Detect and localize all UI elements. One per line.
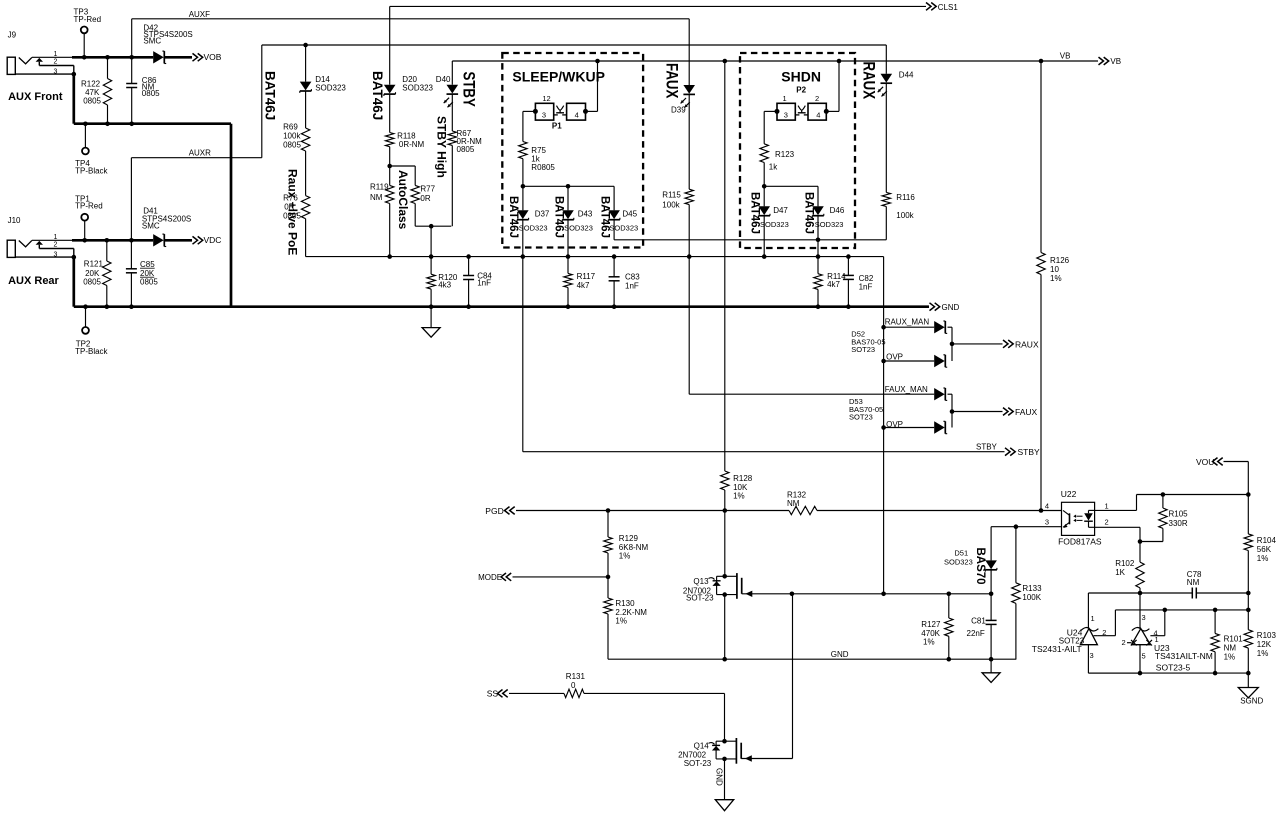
svg-text:BAT46J: BAT46J <box>370 71 385 120</box>
svg-text:TS431AILT-NM: TS431AILT-NM <box>1155 651 1213 661</box>
label D52 <box>851 330 885 355</box>
label BAT46J D43 <box>553 196 565 238</box>
resistor R129 <box>604 508 649 577</box>
svg-text:SOT23: SOT23 <box>851 345 875 354</box>
svg-text:J9: J9 <box>8 31 17 40</box>
svg-text:STBY: STBY <box>976 443 998 452</box>
testpoint TP3 <box>74 8 102 60</box>
label BAT46J D45 <box>599 196 611 238</box>
diode D53 upper <box>934 388 947 400</box>
wire OVP upper <box>881 359 934 364</box>
svg-text:R104: R104 <box>1257 536 1277 545</box>
label STBY <box>459 72 478 107</box>
svg-text:D40: D40 <box>436 75 451 84</box>
svg-text:R77: R77 <box>420 185 435 194</box>
wire J10 sleeve drop <box>72 257 75 307</box>
wire D42 to VOB <box>165 56 193 59</box>
diode D46 <box>812 186 845 229</box>
connector J9 audio jack <box>7 31 74 75</box>
svg-text:P1: P1 <box>552 122 562 131</box>
diode D41 <box>142 207 191 247</box>
svg-text:SOT23: SOT23 <box>849 412 873 421</box>
svg-text:R133: R133 <box>1022 584 1042 593</box>
J9 pin 3 <box>54 68 77 76</box>
svg-text:1nF: 1nF <box>477 279 491 288</box>
svg-text:2: 2 <box>1105 518 1109 527</box>
svg-text:BAS70: BAS70 <box>974 548 986 585</box>
svg-text:4: 4 <box>575 111 579 120</box>
svg-text:R103: R103 <box>1257 631 1277 640</box>
wire P2 pin3 to R123 <box>764 111 777 143</box>
svg-text:5: 5 <box>1142 652 1146 661</box>
label BAS70 D51 <box>974 548 986 585</box>
svg-text:TP-Black: TP-Black <box>75 166 108 175</box>
resistor R119 <box>370 166 394 259</box>
svg-text:0805: 0805 <box>283 212 301 221</box>
resistor R77 <box>390 166 452 229</box>
svg-text:330R: 330R <box>1169 519 1188 528</box>
svg-text:R127: R127 <box>921 620 941 629</box>
diode D20 <box>384 75 434 96</box>
J9 pin 2 <box>54 59 58 66</box>
svg-text:R116: R116 <box>896 193 915 202</box>
svg-text:SOD323: SOD323 <box>815 220 844 229</box>
capacitor C81 <box>967 594 997 662</box>
J10 pin 2 <box>54 242 58 249</box>
svg-text:20K: 20K <box>85 269 100 278</box>
svg-text:FAUX: FAUX <box>1015 407 1038 417</box>
wire J10 pin1 rail <box>72 239 153 242</box>
svg-text:BAT46J: BAT46J <box>553 196 565 238</box>
svg-text:470K: 470K <box>921 629 940 638</box>
svg-text:100k: 100k <box>662 200 680 209</box>
svg-text:22nF: 22nF <box>967 629 985 638</box>
svg-text:GND: GND <box>942 303 960 312</box>
svg-text:R126: R126 <box>1050 256 1070 265</box>
wire U22 pin3 line <box>991 526 1061 528</box>
wire sleep anode bus <box>523 184 614 189</box>
wire RAUX_MAN <box>881 325 934 330</box>
label AutoClass <box>396 170 410 230</box>
svg-text:VB: VB <box>1110 57 1121 66</box>
svg-text:Q13: Q13 <box>693 577 709 586</box>
svg-text:2.2K-NM: 2.2K-NM <box>615 608 647 617</box>
svg-text:2: 2 <box>54 59 58 66</box>
wire FAUX_MAN <box>689 257 934 395</box>
resistor R133 <box>1012 524 1042 659</box>
svg-text:1%: 1% <box>1257 649 1269 658</box>
svg-text:BAT46J: BAT46J <box>749 192 761 234</box>
svg-text:20K: 20K <box>140 269 155 278</box>
wire D37 cathode to STBY <box>521 220 526 452</box>
svg-text:12: 12 <box>542 94 550 103</box>
resistor R120 <box>427 226 458 309</box>
net label AUXF <box>189 10 210 19</box>
svg-text:FAUX_MAN: FAUX_MAN <box>885 385 928 394</box>
resistor R67 <box>448 94 482 227</box>
svg-text:D37: D37 <box>535 210 550 219</box>
svg-text:R123: R123 <box>775 150 795 159</box>
svg-text:4k7: 4k7 <box>577 281 590 290</box>
svg-text:SOD323: SOD323 <box>609 223 638 232</box>
wire OVP vertical <box>883 257 885 594</box>
svg-text:12K: 12K <box>1257 640 1272 649</box>
svg-text:VB: VB <box>1060 52 1071 61</box>
wire GND rail <box>74 305 929 308</box>
resistor R75 <box>519 142 556 189</box>
resistor R126 <box>1037 61 1070 511</box>
svg-text:C85: C85 <box>140 260 155 269</box>
port VOUT <box>1196 457 1223 467</box>
diode D45 <box>608 186 638 232</box>
svg-text:3: 3 <box>1142 613 1146 622</box>
label Raux +live PoE <box>286 169 300 255</box>
svg-text:BAT46J: BAT46J <box>803 192 815 234</box>
resistor R103 <box>1244 610 1276 675</box>
svg-text:AUXF: AUXF <box>189 10 210 19</box>
resistor R118 <box>386 94 425 169</box>
svg-text:0R: 0R <box>284 203 294 212</box>
wire MODE <box>513 575 611 580</box>
capacitor C82 <box>843 254 874 309</box>
svg-text:1K: 1K <box>1115 568 1125 577</box>
svg-text:C83: C83 <box>625 273 640 282</box>
diode D14 <box>300 43 347 93</box>
svg-text:R129: R129 <box>619 534 639 543</box>
wire AUXR <box>131 45 261 240</box>
diode D53 lower <box>934 421 947 433</box>
wire AUX front bottom rail <box>74 122 231 125</box>
svg-text:R115: R115 <box>662 191 681 200</box>
svg-text:CLS1: CLS1 <box>938 3 959 12</box>
diode D44 LED <box>878 45 914 96</box>
svg-text:SOD323: SOD323 <box>402 84 433 93</box>
port VB <box>1099 57 1122 66</box>
svg-text:R0805: R0805 <box>531 163 555 172</box>
svg-text:SGND: SGND <box>1240 697 1263 706</box>
label BAT46J D37 <box>507 196 519 238</box>
wire VOUT <box>1224 462 1251 497</box>
svg-text:3: 3 <box>784 111 788 120</box>
svg-text:AutoClass: AutoClass <box>396 170 410 230</box>
svg-text:1: 1 <box>1105 502 1109 511</box>
wire J9 sleeve drop <box>72 74 75 124</box>
svg-text:100K: 100K <box>1022 593 1041 602</box>
dashed box SLEEP/WKUP <box>502 53 643 248</box>
resistor R123 <box>760 144 795 189</box>
wire CLS1 <box>390 6 926 84</box>
wire cathode bus y256 <box>306 256 884 258</box>
net label OVP upper <box>886 352 903 361</box>
svg-text:TP-Black: TP-Black <box>75 347 108 356</box>
port GND <box>930 303 960 312</box>
resistor R101 <box>1211 608 1243 676</box>
connector J10 audio jack <box>7 216 74 257</box>
label D53 <box>849 397 883 422</box>
svg-text:D51: D51 <box>954 548 968 557</box>
label AUX Rear <box>8 275 59 287</box>
svg-text:SOD323: SOD323 <box>944 558 973 567</box>
wire feedback node <box>1097 593 1250 636</box>
svg-text:R101: R101 <box>1224 635 1244 644</box>
svg-text:FOD817AS: FOD817AS <box>1058 537 1102 547</box>
net label FAUX_MAN <box>885 385 928 394</box>
resistor R132 <box>787 491 817 515</box>
net label VB <box>1060 52 1071 61</box>
diode D37 <box>517 186 550 232</box>
port RAUX <box>1003 339 1039 349</box>
svg-text:MODE: MODE <box>478 573 502 582</box>
resistor R104 <box>1244 495 1276 596</box>
resistor R117 <box>564 220 596 309</box>
resistor R131 <box>509 672 725 741</box>
shunt ref U23 <box>1122 593 1213 675</box>
svg-text:1nF: 1nF <box>625 282 639 291</box>
svg-text:GND: GND <box>831 650 849 659</box>
port FAUX <box>1003 407 1038 417</box>
svg-text:NM: NM <box>1224 644 1237 653</box>
svg-text:4k7: 4k7 <box>827 280 840 289</box>
svg-text:2: 2 <box>815 94 819 103</box>
wire P1 pin3 to R75 <box>523 111 536 141</box>
transistor Q14 <box>678 738 792 800</box>
wire Q13 drain bus <box>790 592 991 597</box>
svg-text:FAUX: FAUX <box>662 63 681 99</box>
svg-text:SOT-23: SOT-23 <box>686 594 714 603</box>
svg-text:SMC: SMC <box>142 221 160 230</box>
svg-text:0R-NM: 0R-NM <box>399 140 425 149</box>
wire Q14 source riser <box>792 594 794 759</box>
port PGD <box>485 506 514 516</box>
svg-text:3: 3 <box>54 68 58 75</box>
wire P1 pin4 riser <box>586 59 600 112</box>
svg-text:GND: GND <box>715 768 724 786</box>
capacitor C78 <box>1140 570 1248 598</box>
testpoint TP1 <box>75 194 103 242</box>
svg-text:VDC: VDC <box>204 235 222 245</box>
resistor R127 <box>921 592 953 662</box>
svg-text:R76: R76 <box>283 194 298 203</box>
label SLEEP/WKUP <box>512 69 605 85</box>
capacitor C84 <box>463 254 492 309</box>
label AUX Front <box>8 91 63 103</box>
optocoupler U22 <box>1039 489 1109 547</box>
wire J9 pin1 rail <box>72 56 153 59</box>
wire anode bus y45 <box>262 44 887 46</box>
diode D43 <box>562 186 593 232</box>
resistor R76 <box>283 151 310 257</box>
svg-text:1%: 1% <box>615 617 627 626</box>
svg-text:0805: 0805 <box>140 278 158 287</box>
svg-text:1%: 1% <box>619 552 631 561</box>
ground symbol below C81 <box>982 659 1000 682</box>
svg-text:D45: D45 <box>622 210 637 219</box>
svg-text:P2: P2 <box>796 86 806 95</box>
svg-text:R105: R105 <box>1169 510 1189 519</box>
svg-text:TS2431-AILT: TS2431-AILT <box>1032 644 1082 654</box>
port VDC <box>193 235 222 245</box>
svg-text:D46: D46 <box>830 206 845 215</box>
J10 pin 1 <box>32 234 73 241</box>
net label GND <box>831 650 849 659</box>
testpoint TP2 <box>75 304 108 356</box>
resistor R69 <box>283 91 310 151</box>
svg-text:D39: D39 <box>671 105 686 114</box>
svg-text:4: 4 <box>816 111 820 120</box>
svg-text:1: 1 <box>783 94 787 103</box>
svg-text:STBY: STBY <box>459 72 478 107</box>
svg-text:1: 1 <box>1155 635 1159 644</box>
svg-text:NM: NM <box>1187 578 1200 587</box>
svg-text:SMC: SMC <box>143 36 161 45</box>
label STBY High <box>435 116 449 178</box>
relay P2 <box>775 94 829 120</box>
wire D41 to VDC <box>165 239 193 242</box>
svg-text:BAT46J: BAT46J <box>507 196 519 238</box>
label BAT46J D20 <box>370 71 385 120</box>
svg-text:0805: 0805 <box>83 96 101 105</box>
svg-text:AUXR: AUXR <box>189 148 211 157</box>
port CLS1 <box>926 3 958 12</box>
svg-text:0805: 0805 <box>142 89 160 98</box>
resistor R122 <box>81 55 112 126</box>
svg-text:C81: C81 <box>971 616 986 625</box>
svg-text:STBY High: STBY High <box>435 116 449 178</box>
svg-text:3: 3 <box>1090 651 1094 660</box>
svg-text:56K: 56K <box>1257 545 1272 554</box>
dashed box SHDN <box>740 53 855 248</box>
svg-text:1%: 1% <box>733 492 745 501</box>
svg-text:0805: 0805 <box>283 141 301 150</box>
svg-text:1nF: 1nF <box>859 282 873 291</box>
label SHDN <box>781 69 821 85</box>
testpoint TP4 <box>75 122 108 176</box>
svg-text:VOU: VOU <box>1196 457 1214 467</box>
net label OVP lower <box>886 420 903 429</box>
svg-text:RAUX_MAN: RAUX_MAN <box>885 318 930 327</box>
svg-text:1k: 1k <box>769 163 778 172</box>
svg-text:D44: D44 <box>899 71 914 80</box>
svg-text:R122: R122 <box>81 79 101 88</box>
capacitor C85 <box>126 238 158 309</box>
svg-text:TP-Red: TP-Red <box>75 202 103 211</box>
svg-text:4k3: 4k3 <box>438 281 451 290</box>
diode D52 upper <box>934 321 947 333</box>
ground symbol below R120 <box>422 307 440 338</box>
svg-text:R117: R117 <box>577 272 596 281</box>
svg-text:RAUX: RAUX <box>859 62 878 100</box>
svg-text:R131: R131 <box>566 672 586 681</box>
wire lower GND line <box>608 658 1016 660</box>
label FAUX <box>662 63 681 99</box>
resistor R115 <box>662 94 693 259</box>
svg-text:Q14: Q14 <box>694 741 710 750</box>
svg-text:4: 4 <box>1045 502 1049 511</box>
svg-text:TP-Red: TP-Red <box>74 15 102 24</box>
svg-text:VOB: VOB <box>204 52 222 62</box>
svg-text:R130: R130 <box>615 599 635 608</box>
svg-text:RAUX: RAUX <box>1015 339 1039 349</box>
svg-text:R69: R69 <box>283 123 298 132</box>
svg-text:1%: 1% <box>923 638 935 647</box>
diode D42 <box>143 24 192 64</box>
svg-text:SHDN: SHDN <box>781 69 821 85</box>
wire C78 left / U24 pin1 <box>1088 593 1140 629</box>
ground symbol SGND <box>1238 673 1263 705</box>
resistor R121 <box>83 238 111 309</box>
svg-text:0R: 0R <box>420 194 430 203</box>
svg-text:6K8-NM: 6K8-NM <box>619 543 649 552</box>
wire OVP lower <box>881 425 934 430</box>
svg-text:R121: R121 <box>84 259 104 268</box>
resistor R114 <box>814 216 846 309</box>
resistor R130 <box>604 577 647 659</box>
svg-text:3: 3 <box>1045 518 1049 527</box>
svg-text:R102: R102 <box>1115 559 1135 568</box>
label BAT46J D47 <box>749 192 761 234</box>
svg-text:SLEEP/WKUP: SLEEP/WKUP <box>512 69 605 85</box>
label RAUX <box>859 62 878 100</box>
J10 pin 3 <box>54 251 77 259</box>
svg-text:2: 2 <box>1122 638 1126 647</box>
wire D52 join <box>948 327 1003 361</box>
wire D45 cathode elbow <box>614 220 886 240</box>
wire U22 pin1 to R105 <box>1095 495 1249 511</box>
resistor R128 <box>721 59 753 513</box>
label GND rotated <box>715 768 724 786</box>
net label STBY <box>976 443 998 452</box>
label BAT46J D46 <box>803 192 815 234</box>
svg-text:0: 0 <box>571 681 576 690</box>
diode D39 LED <box>671 19 695 115</box>
svg-text:1%: 1% <box>1050 274 1062 283</box>
svg-text:0805: 0805 <box>457 145 475 154</box>
svg-text:2: 2 <box>54 242 58 249</box>
svg-text:10: 10 <box>1050 265 1059 274</box>
port VOB <box>193 52 222 62</box>
svg-text:1%: 1% <box>1257 554 1269 563</box>
svg-text:D47: D47 <box>773 206 788 215</box>
wire D47 cathode <box>762 216 767 259</box>
port SS <box>487 689 508 699</box>
svg-text:STBY: STBY <box>1018 447 1041 457</box>
svg-text:PGD: PGD <box>485 506 503 516</box>
wire SGND bus <box>1088 672 1248 674</box>
svg-text:1%: 1% <box>1224 653 1236 662</box>
net label AUXR <box>189 148 211 157</box>
svg-text:SOD323: SOD323 <box>315 84 346 93</box>
port MODE <box>478 573 511 582</box>
wire PGD <box>516 510 1062 512</box>
ground symbol below Q14 <box>715 800 733 811</box>
shunt ref U24 <box>1032 614 1140 673</box>
diode D52 lower <box>934 355 947 367</box>
svg-text:NM: NM <box>787 499 800 508</box>
relay P1 <box>533 94 588 131</box>
diode D40 LED <box>436 75 458 107</box>
svg-text:J10: J10 <box>8 216 21 225</box>
svg-text:D43: D43 <box>578 210 593 219</box>
svg-text:NM: NM <box>370 193 383 202</box>
svg-text:0805: 0805 <box>83 278 101 287</box>
wire VB bus y61 <box>452 61 1098 85</box>
wire shdn anode bus <box>764 185 818 187</box>
net label RAUX_MAN <box>885 318 930 327</box>
svg-text:AUX Front: AUX Front <box>8 91 63 103</box>
resistor R102 <box>1115 542 1144 596</box>
svg-text:BAT46J: BAT46J <box>263 71 278 120</box>
wire D53 join <box>948 394 1003 427</box>
